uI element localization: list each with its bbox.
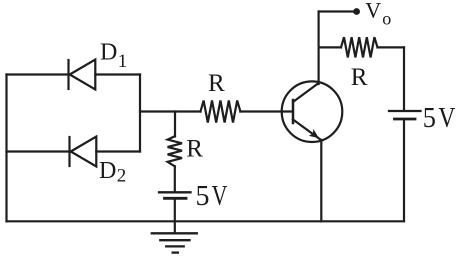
svg-text:2: 2 bbox=[117, 166, 127, 187]
svg-text:V: V bbox=[212, 181, 228, 212]
svg-text:5: 5 bbox=[196, 181, 210, 212]
wire bottom rail bbox=[7, 220, 405, 222]
wire base right bbox=[240, 110, 293, 112]
wire bias to battery bbox=[174, 166, 176, 191]
wire emitter down bbox=[320, 140, 322, 222]
resistor R bias (vertical) bbox=[168, 136, 182, 166]
label D1 bbox=[100, 40, 127, 72]
battery 5V right bbox=[389, 111, 421, 119]
battery 5V middle bbox=[159, 192, 191, 198]
svg-text:D: D bbox=[100, 40, 117, 66]
svg-text:R: R bbox=[351, 64, 368, 91]
wire collector resistor lead right bbox=[378, 46, 405, 48]
wire collector up bbox=[318, 12, 320, 85]
svg-text:V: V bbox=[438, 103, 455, 134]
svg-text:o: o bbox=[382, 8, 391, 28]
svg-text:1: 1 bbox=[118, 51, 128, 72]
label Vo bbox=[365, 0, 391, 28]
node Vo terminal dot bbox=[353, 8, 360, 15]
resistor R collector bbox=[341, 37, 378, 57]
wire right rail upper bbox=[403, 47, 405, 110]
svg-text:V: V bbox=[365, 0, 381, 23]
wire battery to ground bbox=[174, 200, 176, 234]
wire top branch left bbox=[7, 73, 69, 75]
wire diode join vertical bbox=[139, 75, 141, 152]
diode D2 bbox=[70, 137, 97, 167]
wire output top bbox=[319, 10, 357, 12]
node junction to bias network bbox=[174, 112, 176, 137]
transistor Q1 bbox=[282, 81, 343, 142]
wire base left bbox=[140, 110, 201, 112]
wire left rail bbox=[5, 75, 7, 222]
svg-text:R: R bbox=[208, 70, 225, 97]
ground bbox=[152, 233, 197, 252]
wire middle branch left bbox=[7, 150, 70, 152]
diode D1 bbox=[69, 60, 96, 90]
wire collector resistor lead left bbox=[319, 46, 341, 48]
svg-text:D: D bbox=[99, 158, 116, 184]
wire right rail lower bbox=[403, 120, 405, 221]
svg-text:R: R bbox=[186, 136, 203, 163]
wire top branch right bbox=[95, 73, 140, 75]
svg-text:5: 5 bbox=[423, 103, 436, 134]
resistor R base (horizontal) bbox=[201, 101, 241, 123]
wire middle branch right bbox=[96, 150, 140, 152]
label D2 bbox=[99, 158, 126, 187]
